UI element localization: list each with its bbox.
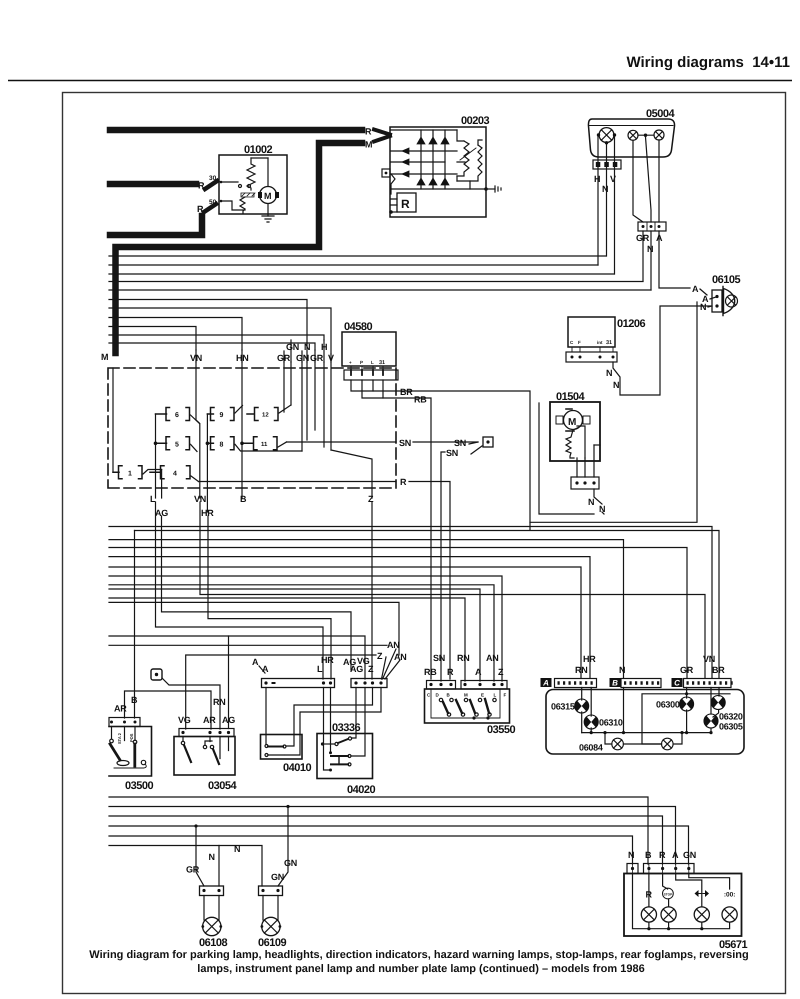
regulator connections — [391, 174, 395, 194]
diode column 2 — [432, 130, 434, 189]
svg-text:N: N — [209, 852, 215, 862]
wire Z2 diagonal to strip pin — [382, 657, 387, 679]
connector square SN — [483, 437, 493, 447]
wire bus to RN 03550 — [109, 598, 465, 681]
fuse 12 — [247, 405, 291, 421]
svg-text:R: R — [659, 850, 666, 860]
wire bus N2 — [109, 289, 651, 291]
wire AG inside fusebox — [161, 470, 163, 499]
wire column B via fuse 9 — [241, 362, 243, 498]
svg-text:RN: RN — [575, 665, 587, 675]
icon stop — [663, 888, 674, 899]
fuse 1 — [113, 466, 162, 479]
svg-text:03500: 03500 — [125, 780, 153, 792]
svg-text:03054: 03054 — [208, 780, 237, 792]
wire bus VG strip — [109, 636, 365, 679]
lamp 06310 — [584, 715, 598, 729]
svg-text:VN: VN — [703, 654, 715, 664]
svg-text:06300: 06300 — [656, 700, 680, 710]
wire SN out of fusebox — [287, 441, 397, 443]
svg-text:SN: SN — [454, 438, 466, 448]
wire GR drop — [196, 826, 204, 886]
field terminal square — [382, 169, 390, 177]
direction indicator switch 03550 — [424, 653, 515, 736]
wire B down to 03500 — [134, 531, 136, 719]
connector tag C — [672, 678, 683, 687]
ignition switch unit 01002 — [209, 144, 287, 222]
side lamp 06105 — [530, 274, 740, 522]
svg-text:Wiring diagrams 14•11: Wiring diagrams 14•11 — [626, 54, 790, 71]
svg-text:4: 4 — [173, 470, 177, 477]
wire AG up from 03054 — [228, 636, 230, 729]
wire bus N to 05004 — [109, 255, 606, 257]
wire battery cable R top — [110, 127, 362, 134]
wire bus N link lamps — [109, 845, 219, 847]
svg-text:A: A — [692, 284, 699, 294]
wires from small bulbs down — [633, 140, 659, 222]
connector strip A — [555, 679, 597, 688]
fuse 8 — [207, 437, 302, 451]
lamp 06084 right — [662, 738, 674, 750]
box 03550 — [425, 689, 510, 723]
bottom wire bundle — [109, 797, 689, 864]
wire AG to 04020 blade — [352, 688, 356, 739]
svg-text:Z: Z — [368, 664, 374, 674]
wire GR down — [642, 231, 644, 281]
svg-text:SN: SN — [446, 448, 458, 458]
svg-text:STA 2: STA 2 — [117, 732, 122, 744]
wire bus N to 05671 — [109, 836, 633, 864]
connector strip C — [684, 679, 732, 688]
svg-text:GN: GN — [683, 850, 696, 860]
svg-text:B: B — [612, 679, 618, 688]
ignition switch 03500 — [109, 718, 153, 793]
contact bars inside 04020 — [329, 751, 332, 754]
wire cable diagonal to terminal 30 — [205, 181, 217, 189]
svg-text:HR: HR — [583, 654, 596, 664]
wire N down — [606, 145, 608, 257]
top bus — [391, 129, 457, 131]
svg-text:N: N — [628, 850, 634, 860]
svg-text:AN: AN — [486, 653, 498, 663]
svg-text:A: A — [672, 850, 679, 860]
wire RB from 04580 — [362, 380, 431, 679]
connector strip B — [621, 679, 661, 688]
svg-text:A: A — [475, 667, 482, 677]
connector single — [627, 864, 638, 874]
svg-text:H: H — [321, 342, 327, 352]
svg-text:04580: 04580 — [344, 321, 372, 333]
wire drops from top labels — [284, 362, 331, 451]
svg-text:RN: RN — [213, 697, 225, 707]
svg-text:N: N — [619, 665, 625, 675]
lamp 06305 — [704, 714, 718, 728]
svg-text:P: P — [360, 360, 363, 365]
alternator 00203 — [382, 115, 501, 217]
internal wires 05671 — [633, 874, 730, 929]
svg-text:AR: AR — [203, 715, 216, 725]
svg-text:L: L — [494, 693, 497, 698]
connector tag B — [610, 678, 621, 687]
svg-text:AR: AR — [114, 704, 127, 714]
wire column VN via fuse 6 — [196, 362, 200, 498]
svg-text:N: N — [606, 368, 612, 378]
left diodes to field — [391, 151, 457, 174]
svg-text:Wiring diagram for parking lam: Wiring diagram for parking lamp, headlig… — [89, 949, 748, 961]
light switch 03054 — [174, 636, 237, 792]
motor M inside 01002 — [260, 187, 277, 204]
switch blades 03550 — [439, 698, 442, 701]
fuse 5 — [156, 437, 198, 452]
rear lamp cluster — [541, 654, 745, 754]
svg-text:HR: HR — [321, 655, 334, 665]
header rule — [8, 80, 792, 82]
svg-text:01002: 01002 — [244, 144, 272, 156]
fuse 6 — [156, 408, 200, 424]
svg-text:9: 9 — [220, 412, 224, 419]
hazard switch 04580 — [342, 321, 530, 679]
lamp check relay 01504 — [539, 391, 605, 514]
wire VG to 04020 bar — [351, 688, 365, 757]
svg-text:31: 31 — [606, 340, 612, 346]
svg-text:L: L — [317, 664, 323, 674]
middle wire bundle — [109, 502, 719, 729]
wire L to 04020 — [324, 688, 330, 771]
svg-text:RB: RB — [414, 395, 427, 405]
svg-text:06109: 06109 — [258, 937, 286, 949]
svg-text:8: 8 — [220, 441, 224, 448]
svg-text:M: M — [464, 693, 468, 698]
bulb 06108 — [203, 917, 221, 935]
wire Z2 to 04010 — [285, 688, 381, 756]
svg-text:50: 50 — [209, 199, 217, 206]
ground below 01002 — [267, 204, 269, 216]
svg-text:C: C — [674, 679, 680, 688]
connector 3pin below 05004 — [593, 160, 621, 169]
svg-text:6: 6 — [175, 412, 179, 419]
svg-text:AG: AG — [350, 664, 363, 674]
svg-text:M: M — [101, 352, 108, 362]
wire AG chain — [162, 516, 352, 670]
wire BR from 04580 — [351, 380, 530, 529]
fuse 11 — [243, 437, 287, 450]
svg-text:B: B — [240, 494, 247, 504]
diode column 1 — [420, 130, 422, 189]
svg-text:GN: GN — [284, 858, 297, 868]
wire bus to RN rear — [109, 567, 581, 678]
svg-text:GR: GR — [186, 865, 200, 875]
svg-text:N: N — [700, 302, 706, 312]
wires to connector — [577, 445, 594, 477]
wire L from 04580 — [372, 380, 374, 391]
wire bus to AN 03550 — [109, 585, 494, 681]
wire bus A to 05671 — [109, 807, 676, 865]
top wire bundle — [109, 256, 651, 362]
wire V down — [614, 137, 616, 275]
hazard flasher 03336 04020 — [317, 688, 375, 797]
svg-text:Z: Z — [368, 494, 374, 504]
svg-text:00203: 00203 — [461, 115, 489, 127]
wire column L — [155, 414, 157, 498]
wire Z inside fusebox — [331, 450, 372, 498]
svg-text:GR: GR — [310, 353, 324, 363]
connector of 06105 — [712, 290, 722, 312]
motor circle — [564, 411, 583, 430]
svg-text:BR: BR — [400, 387, 413, 397]
resistor zigzag 01504 — [566, 430, 574, 458]
panel box — [624, 874, 742, 937]
svg-text:SN: SN — [399, 438, 411, 448]
stems — [263, 896, 278, 921]
svg-text:L: L — [371, 360, 374, 365]
svg-text:GN: GN — [286, 342, 299, 352]
connector strips 03550 — [427, 681, 456, 690]
svg-text:31: 31 — [379, 360, 385, 366]
wire bus to N rear — [109, 540, 624, 678]
svg-text:H: H — [594, 174, 600, 184]
stems — [204, 896, 219, 921]
svg-text:04020: 04020 — [347, 784, 375, 796]
wire A net down — [530, 302, 697, 522]
wire bus to fusebox V — [109, 308, 331, 354]
svg-text:Z: Z — [377, 651, 383, 661]
svg-text:06105: 06105 — [712, 274, 740, 286]
lamp 06315 — [575, 699, 589, 713]
wire N down — [650, 231, 652, 290]
svg-text:BR: BR — [712, 665, 725, 675]
wire bus VG 03054 — [186, 655, 376, 729]
svg-text:N: N — [602, 184, 608, 194]
svg-text:06305: 06305 — [719, 722, 743, 732]
wire R label chain — [400, 477, 450, 679]
svg-text:F: F — [578, 340, 581, 345]
wire bus R to 05671 — [109, 816, 663, 864]
svg-text:Z: Z — [498, 667, 504, 677]
wire HR to 04020 — [330, 688, 332, 752]
connector strip 04580 — [344, 370, 398, 380]
connector GR A — [638, 222, 666, 231]
svg-text:N: N — [588, 497, 594, 507]
svg-text:RN: RN — [457, 653, 469, 663]
wire bus to GR rear — [109, 548, 687, 679]
svg-text:N: N — [234, 844, 240, 854]
svg-text:30: 30 — [209, 175, 217, 182]
svg-text:AN: AN — [387, 640, 399, 650]
fusebox bottom labels — [150, 494, 374, 518]
wire cable diagonal to terminal 50 — [204, 204, 216, 212]
wire AR link 03500 to 03054 — [114, 691, 211, 729]
lamp 06320 — [711, 696, 725, 710]
wire battery cable R bottom — [110, 216, 202, 235]
svg-text:12: 12 — [262, 412, 269, 419]
wire bus to fusebox VN — [109, 327, 196, 351]
wire bus to HR rear — [109, 557, 590, 678]
connector 06109 — [259, 886, 283, 896]
wire column HR — [206, 414, 208, 512]
resistor R1 inside 01002 — [247, 158, 255, 190]
connector strip A-A HR-L — [252, 655, 335, 688]
wire bus AN to strip — [109, 644, 387, 646]
svg-text:STOP: STOP — [664, 892, 673, 896]
connector square node — [151, 669, 225, 729]
svg-text:M: M — [568, 417, 576, 428]
svg-text:B: B — [131, 695, 138, 705]
bulb 06109 — [262, 917, 280, 935]
connector strip 01206 — [566, 352, 617, 362]
number plate lamp 06109 — [258, 805, 297, 949]
switch blades inside 03054 — [183, 737, 210, 742]
lamp 06084 left — [612, 738, 624, 750]
wire link small bulbs — [638, 134, 654, 136]
connector 4pin — [644, 864, 695, 874]
svg-text:05004: 05004 — [646, 108, 675, 120]
connector 06108 — [200, 886, 224, 896]
svg-text:06315: 06315 — [551, 702, 575, 712]
bulb — [726, 295, 738, 307]
wire bus 605 to AN2 — [109, 602, 399, 655]
svg-text:A: A — [252, 657, 259, 667]
bulb main — [599, 128, 614, 143]
svg-text:06084: 06084 — [579, 743, 603, 753]
wire bus GR — [109, 281, 643, 283]
wire VN long to rear — [200, 502, 705, 678]
wire L chain — [156, 502, 324, 679]
number plate lamp 06108 — [186, 824, 262, 949]
svg-text:R: R — [365, 127, 372, 137]
wire bus to VN rear — [109, 527, 712, 679]
svg-text:R: R — [400, 477, 407, 487]
diode column 3 — [444, 130, 446, 189]
svg-text:GN: GN — [271, 872, 284, 882]
svg-text:1: 1 — [128, 470, 132, 477]
wire cable diagonal to alternator — [374, 130, 390, 135]
svg-text:N: N — [613, 380, 619, 390]
svg-text::00:: :00: — [724, 892, 736, 899]
wire R out of fusebox — [199, 481, 397, 483]
svg-text:RB: RB — [424, 667, 437, 677]
svg-text:R: R — [447, 667, 454, 677]
wire HR chain — [208, 516, 331, 679]
lamp 06300 — [680, 697, 694, 711]
bulb small 1 — [628, 130, 638, 140]
fusebox internal wires — [113, 362, 396, 512]
connector 01504 — [571, 477, 599, 489]
fuse 4 — [150, 466, 199, 482]
svg-text:R: R — [401, 197, 410, 211]
cluster body — [546, 690, 744, 755]
wire A down to 06105 — [659, 231, 690, 288]
inner box — [431, 689, 500, 718]
wire bus B to 05671 — [109, 797, 648, 864]
svg-text:01206: 01206 — [617, 318, 645, 330]
switch top inside 04020 — [321, 742, 324, 745]
svg-text:+: + — [349, 360, 352, 365]
svg-text:11: 11 — [261, 441, 268, 448]
internal wires rear cluster — [582, 688, 592, 733]
wire SN label chain — [399, 437, 493, 681]
wire 31 from 04580 — [382, 380, 384, 398]
wire cable diagonal M to alternator — [374, 136, 390, 142]
wire A to 04010 — [265, 688, 267, 745]
svg-text:GR: GR — [680, 665, 694, 675]
flasher unit 01206 — [566, 317, 659, 395]
fusebox dashed border — [108, 368, 396, 488]
stator windings — [457, 130, 464, 141]
icon arrows — [695, 890, 710, 897]
wire N link — [219, 846, 262, 887]
wire bus to fusebox HN — [109, 318, 242, 351]
wire bus to fusebox N — [109, 300, 307, 344]
svg-text:F: F — [504, 693, 507, 698]
lamp body half circle — [723, 287, 735, 316]
svg-text:A: A — [262, 664, 269, 674]
svg-text:VG: VG — [178, 715, 191, 725]
wire bus to A 03550 — [109, 589, 480, 681]
wire bus to fusebox GR2 — [109, 343, 315, 350]
solenoid contacts inside 01002 — [221, 181, 238, 183]
connector strip AG VG Z — [343, 640, 406, 688]
wire battery cable M — [116, 143, 363, 353]
wire bus B to BR — [135, 531, 720, 679]
reversing switch 04010 — [261, 688, 382, 775]
instrument panel 05671 — [624, 850, 747, 951]
wire bus H to 05004 — [109, 264, 598, 266]
svg-text:lamps, instrument panel lamp a: lamps, instrument panel lamp and number … — [197, 963, 644, 975]
bulbs — [641, 907, 656, 922]
wire Z to 04010 — [286, 688, 373, 747]
wire bus to Z 03550 — [109, 576, 502, 681]
wire GN drop — [278, 807, 288, 887]
svg-text:M: M — [264, 191, 272, 201]
svg-text:06320: 06320 — [719, 712, 743, 722]
svg-text:E: E — [481, 693, 484, 698]
fusebox top labels — [101, 342, 334, 363]
connector tag A — [541, 678, 552, 687]
wire H down — [597, 137, 599, 266]
svg-text:B: B — [645, 850, 652, 860]
svg-text:06310: 06310 — [599, 718, 623, 728]
wire bus GN to 05671 — [109, 826, 689, 864]
wire bus to fusebox H — [109, 335, 324, 340]
svg-text:N: N — [304, 342, 310, 352]
svg-text:int: int — [597, 340, 603, 345]
wire bus V to 05004 — [109, 273, 614, 275]
fuse 9 — [207, 406, 242, 421]
wire Z from fusebox down — [371, 502, 373, 679]
wire battery cable R middle — [110, 181, 196, 188]
svg-text:N: N — [647, 244, 653, 254]
svg-text:M: M — [365, 140, 372, 150]
svg-text:POS: POS — [129, 733, 134, 742]
bulb small 2 — [654, 130, 664, 140]
regulator R box — [397, 193, 416, 212]
svg-text:A: A — [542, 679, 549, 688]
svg-text:5: 5 — [175, 441, 179, 448]
svg-text:04010: 04010 — [283, 762, 311, 774]
svg-text:06108: 06108 — [199, 937, 227, 949]
wire M feed to fuse 1 — [112, 368, 114, 472]
headlamp unit 05004 — [588, 108, 690, 290]
svg-text:SN: SN — [433, 653, 445, 663]
wire drops into fusebox — [284, 340, 331, 362]
bottom bus with ground — [391, 188, 486, 190]
svg-text:03550: 03550 — [487, 724, 515, 736]
svg-text:01504: 01504 — [556, 391, 585, 403]
wire N from 06105 — [660, 306, 712, 395]
